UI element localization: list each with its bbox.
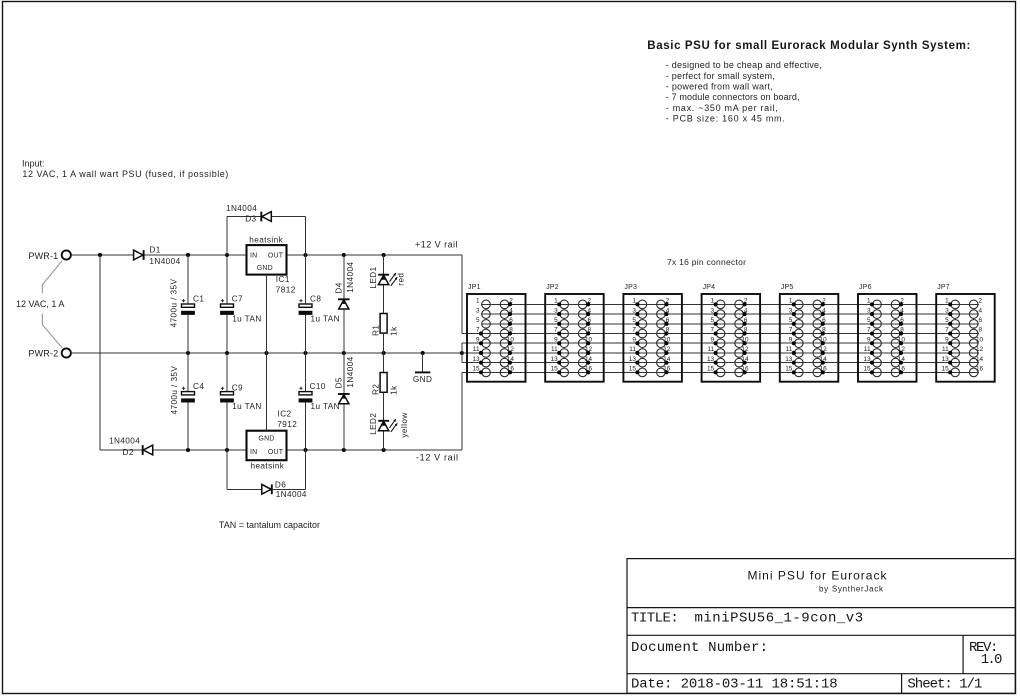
svg-text:D6: D6 xyxy=(275,481,286,490)
svg-text:5: 5 xyxy=(476,317,480,324)
svg-text:1N4004: 1N4004 xyxy=(346,356,355,387)
diode D1 xyxy=(134,250,143,260)
svg-text:1N4004: 1N4004 xyxy=(346,262,355,293)
ground symbol xyxy=(422,353,424,372)
svg-text:4700u / 35V: 4700u / 35V xyxy=(170,366,179,415)
svg-text:1N4004: 1N4004 xyxy=(276,490,307,499)
svg-text:15: 15 xyxy=(551,366,559,373)
capacitor C1 xyxy=(187,255,189,304)
svg-text:12: 12 xyxy=(976,346,984,353)
svg-text:11: 11 xyxy=(629,346,636,353)
svg-text:JP2: JP2 xyxy=(546,284,559,291)
bus wires rows 1-8 xyxy=(481,303,979,305)
svg-text:15: 15 xyxy=(942,366,950,373)
svg-text:1N4004: 1N4004 xyxy=(226,204,257,213)
connector JP3 xyxy=(623,284,682,382)
svg-text:12 VAC, 1 A: 12 VAC, 1 A xyxy=(16,299,64,309)
svg-text:1k: 1k xyxy=(390,326,399,336)
svg-text:C4: C4 xyxy=(193,382,204,391)
svg-text:3: 3 xyxy=(476,307,480,314)
LED LED1 red xyxy=(383,255,385,275)
svg-text:7912: 7912 xyxy=(277,420,297,429)
GND bracket to JP1 xyxy=(461,343,463,362)
capacitor C9 xyxy=(226,353,228,392)
svg-text:LED2: LED2 xyxy=(369,413,378,435)
diode D5 xyxy=(343,353,345,394)
connector PWR-1 xyxy=(62,250,71,259)
svg-text:D5: D5 xyxy=(335,377,344,388)
wire GND bus xyxy=(71,352,462,354)
svg-text:D4: D4 xyxy=(335,282,344,293)
svg-text:Date: 2018-03-11 18:51:18: Date: 2018-03-11 18:51:18 xyxy=(631,677,838,693)
title block frame xyxy=(627,559,1015,694)
svg-text:13: 13 xyxy=(785,356,793,363)
svg-text:- designed to be cheap and eff: - designed to be cheap and effective, xyxy=(666,60,822,70)
svg-text:GND: GND xyxy=(257,265,273,272)
diode D6 xyxy=(262,484,271,494)
diode D2 xyxy=(143,445,152,455)
svg-text:7812: 7812 xyxy=(276,286,296,295)
svg-text:Mini PSU for Eurorack: Mini PSU for Eurorack xyxy=(748,569,888,583)
svg-text:13: 13 xyxy=(551,356,559,363)
node junctions on GND bus xyxy=(186,351,190,355)
wire D2 to IC2 IN xyxy=(153,449,246,451)
wire branch to D2 xyxy=(100,449,142,451)
connector PWR-2 xyxy=(62,348,71,357)
svg-text:+12 V rail: +12 V rail xyxy=(415,239,458,249)
wire D1 to IC1 IN xyxy=(144,254,247,256)
svg-text:C9: C9 xyxy=(232,383,243,392)
svg-text:JP4: JP4 xyxy=(703,284,716,291)
junction dots JP4 xyxy=(714,302,747,374)
svg-text:GND: GND xyxy=(413,375,432,384)
regulator IC2 7912 xyxy=(247,431,287,461)
svg-text:LED1: LED1 xyxy=(369,266,378,288)
junction dots JP5 xyxy=(792,302,825,374)
svg-text:8: 8 xyxy=(979,327,983,334)
svg-text:C8: C8 xyxy=(310,295,321,304)
junction dots JP6 xyxy=(870,302,903,374)
resistor R1 1k xyxy=(380,314,387,334)
svg-text:1u TAN: 1u TAN xyxy=(311,402,341,411)
svg-text:4: 4 xyxy=(979,307,983,314)
svg-text:14: 14 xyxy=(976,356,984,363)
svg-text:- PCB size: 160 x 45 mm.: - PCB size: 160 x 45 mm. xyxy=(666,114,785,124)
svg-text:D1: D1 xyxy=(149,245,160,254)
svg-text:12 VAC, 1 A wall wart PSU (fus: 12 VAC, 1 A wall wart PSU (fused, if pos… xyxy=(22,169,228,179)
svg-text:13: 13 xyxy=(472,356,480,363)
svg-text:R1: R1 xyxy=(371,325,380,336)
svg-text:- perfect for small system,: - perfect for small system, xyxy=(666,71,775,81)
svg-text:11: 11 xyxy=(942,346,949,353)
svg-text:IN: IN xyxy=(250,253,257,260)
svg-text:11: 11 xyxy=(551,346,558,353)
connector JP2 xyxy=(545,284,604,382)
svg-text:R2: R2 xyxy=(371,384,380,395)
diode D3 xyxy=(262,212,271,222)
svg-text:11: 11 xyxy=(473,346,480,353)
connector JP6 xyxy=(858,284,917,382)
svg-text:TAN = tantalum capacitor: TAN = tantalum capacitor xyxy=(219,520,320,530)
svg-text:Document Number:: Document Number: xyxy=(631,640,768,656)
svg-text:13: 13 xyxy=(629,356,637,363)
wire IC2 GND pin xyxy=(266,353,268,431)
capacitor C7 xyxy=(226,255,228,304)
svg-text:15: 15 xyxy=(707,366,715,373)
svg-text:D2: D2 xyxy=(123,448,134,457)
svg-text:C7: C7 xyxy=(232,295,243,304)
junction dots JP1 xyxy=(479,302,512,374)
svg-text:red: red xyxy=(397,273,406,286)
svg-text:- powered from wall wart,: - powered from wall wart, xyxy=(666,82,773,92)
connector JP7 xyxy=(936,284,995,382)
svg-text:1u TAN: 1u TAN xyxy=(311,314,341,323)
svg-text:10: 10 xyxy=(976,336,984,343)
wire bottom bypass xyxy=(226,450,228,489)
svg-text:1: 1 xyxy=(476,298,480,305)
capacitor C10 xyxy=(305,353,307,392)
capacitor C4 xyxy=(187,353,189,392)
svg-text:JP7: JP7 xyxy=(937,284,950,291)
svg-text:OUT: OUT xyxy=(268,253,284,260)
svg-text:by SyntherJack: by SyntherJack xyxy=(819,584,884,593)
node junctions on +12V path xyxy=(98,253,102,257)
diode D4 xyxy=(343,255,345,299)
svg-text:- max. ~350 mA per rail,: - max. ~350 mA per rail, xyxy=(666,103,778,113)
connector JP4 xyxy=(702,284,761,382)
LED LED2 yellow xyxy=(383,392,385,421)
connector JP1 xyxy=(467,284,526,382)
svg-text:IN: IN xyxy=(250,449,257,456)
svg-text:C1: C1 xyxy=(193,295,204,304)
svg-text:- 7 module connectors on board: - 7 module connectors on board, xyxy=(666,92,800,102)
wire input branch down xyxy=(99,255,101,450)
wire IC1 GND pin xyxy=(266,275,268,353)
junction dots JP2 xyxy=(557,302,590,374)
svg-text:15: 15 xyxy=(785,366,793,373)
capacitor C8 xyxy=(305,255,307,304)
svg-text:1N4004: 1N4004 xyxy=(149,257,180,266)
connector JP5 xyxy=(780,284,839,382)
svg-text:1u TAN: 1u TAN xyxy=(232,314,262,323)
svg-text:IC2: IC2 xyxy=(278,409,292,418)
wire +12V rail drop to JP1 xyxy=(461,255,463,334)
regulator IC1 7812 xyxy=(247,245,287,275)
wall wart source symbol xyxy=(42,261,62,349)
wire IC2 OUT to -12V corner xyxy=(287,449,462,451)
svg-text:1.0: 1.0 xyxy=(981,652,1003,668)
svg-text:D3: D3 xyxy=(245,214,256,223)
svg-text:JP5: JP5 xyxy=(781,284,794,291)
svg-text:GND: GND xyxy=(258,436,274,443)
junction dots JP3 xyxy=(635,302,668,374)
svg-text:13: 13 xyxy=(942,356,950,363)
svg-text:15: 15 xyxy=(863,366,871,373)
svg-text:6: 6 xyxy=(979,317,983,324)
svg-text:16: 16 xyxy=(976,366,984,373)
svg-text:JP1: JP1 xyxy=(468,284,481,291)
node junctions on -12V path xyxy=(186,448,190,452)
svg-text:OUT: OUT xyxy=(268,449,284,456)
svg-text:heatsink: heatsink xyxy=(249,235,283,244)
svg-text:1u TAN: 1u TAN xyxy=(232,402,262,411)
wire -12V rail rise to JP1 xyxy=(461,372,463,450)
svg-text:JP6: JP6 xyxy=(859,284,872,291)
svg-text:11: 11 xyxy=(864,346,871,353)
svg-text:PWR-2: PWR-2 xyxy=(28,349,58,359)
svg-text:miniPSU56_1-9con_v3: miniPSU56_1-9con_v3 xyxy=(695,611,864,627)
svg-text:Basic PSU for small Eurorack M: Basic PSU for small Eurorack Modular Syn… xyxy=(647,40,970,52)
wire PWR-1 to D1 xyxy=(71,254,133,256)
wire top bypass xyxy=(226,217,228,256)
svg-text:15: 15 xyxy=(629,366,637,373)
svg-text:yellow: yellow xyxy=(400,412,409,437)
svg-text:13: 13 xyxy=(863,356,871,363)
svg-text:4700u / 35V: 4700u / 35V xyxy=(169,279,178,328)
resistor R2 1k xyxy=(383,353,385,373)
svg-text:TITLE:: TITLE: xyxy=(631,611,679,627)
svg-text:C10: C10 xyxy=(310,382,326,391)
svg-text:-12 V rail: -12 V rail xyxy=(416,453,458,463)
svg-text:PWR-1: PWR-1 xyxy=(28,251,58,261)
svg-text:13: 13 xyxy=(707,356,715,363)
svg-text:15: 15 xyxy=(472,366,480,373)
svg-text:1k: 1k xyxy=(390,385,399,395)
svg-text:JP3: JP3 xyxy=(624,284,637,291)
wire IC1 OUT to +12V corner xyxy=(287,254,462,256)
svg-text:11: 11 xyxy=(707,346,714,353)
svg-text:Input:: Input: xyxy=(22,158,45,168)
junction dots JP7 xyxy=(948,302,952,374)
svg-text:1N4004: 1N4004 xyxy=(109,437,140,446)
svg-text:7x 16 pin connector: 7x 16 pin connector xyxy=(667,257,746,267)
svg-text:heatsink: heatsink xyxy=(250,462,284,471)
svg-text:IC1: IC1 xyxy=(276,275,290,284)
svg-text:2: 2 xyxy=(979,298,983,305)
svg-text:11: 11 xyxy=(786,346,793,353)
svg-text:Sheet: 1/1: Sheet: 1/1 xyxy=(907,677,982,693)
